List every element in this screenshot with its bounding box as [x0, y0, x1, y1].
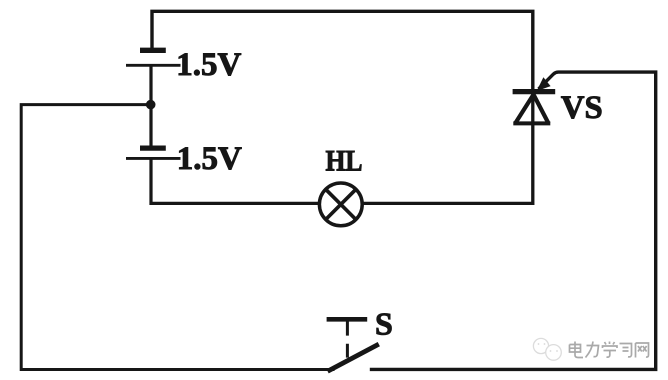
watermark logo (two chat bubbles)	[533, 338, 561, 360]
battery B2 (1.5V cell: short thick negative plate, long thin positive plate)	[126, 148, 181, 158]
node junction dot (battery tap)	[146, 100, 156, 110]
wire top rail (battery B1 negative up, across, down to thyristor anode)	[152, 11, 533, 89]
char 学	[603, 342, 618, 358]
char 习	[620, 344, 632, 357]
wire left tap: junction to left rail down to switch	[21, 105, 334, 370]
wire battery B2 positive down and across to lamp HL	[151, 158, 320, 203]
watermark text 电力学习网 (drawn strokes)	[570, 342, 649, 358]
wire battery B1 positive to junction to battery B2	[149, 65, 152, 148]
char 网	[636, 343, 649, 358]
wire gate lead, right rail and bottom right rail	[370, 72, 656, 369]
thyristor VS (SCR: triangle, cathode bar, gate with arrow)	[513, 77, 556, 123]
lamp HL (circle with X)	[319, 183, 362, 226]
char 力	[586, 342, 599, 358]
wire lamp HL to thyristor cathode branch	[362, 92, 533, 203]
switch S (push-button: actuator T over lever)	[327, 319, 379, 371]
svg-text:HL: HL	[326, 146, 363, 178]
battery B1 (1.5V cell: short thick negative plate, long thin positive plate)	[126, 50, 181, 65]
svg-text:1.5V: 1.5V	[176, 47, 241, 83]
svg-text:VS: VS	[561, 90, 603, 126]
svg-text:1.5V: 1.5V	[177, 141, 242, 177]
svg-text:S: S	[375, 306, 393, 342]
char 电	[570, 342, 584, 358]
